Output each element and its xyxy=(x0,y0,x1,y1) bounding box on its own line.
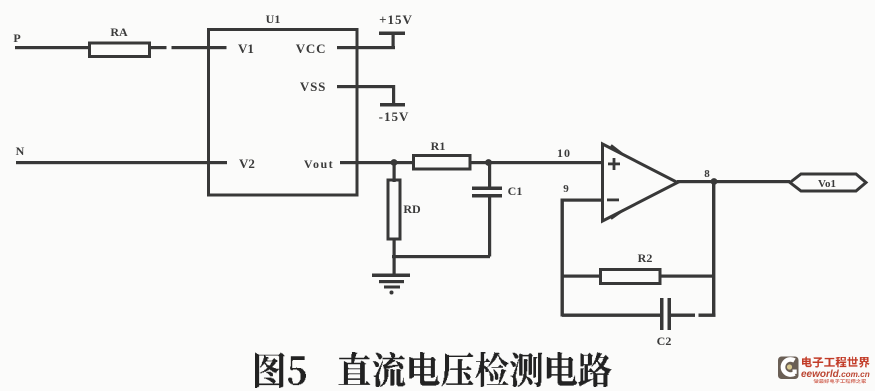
power -15V xyxy=(379,85,410,124)
svg-text:V1: V1 xyxy=(238,41,254,56)
wire R1 to op-amp xyxy=(470,161,603,164)
logo eeworld icon xyxy=(778,357,799,380)
svg-text:U1: U1 xyxy=(266,12,281,26)
svg-text:eeworld.com.cn: eeworld.com.cn xyxy=(801,369,870,380)
power +15V xyxy=(379,12,413,47)
node P xyxy=(13,31,20,45)
caption 直流电压检测电路 xyxy=(339,352,612,387)
capacitor C1 xyxy=(472,164,522,257)
svg-text:V2: V2 xyxy=(239,156,255,171)
wire RA to U1 V1 xyxy=(150,46,227,49)
label pin 10 xyxy=(557,146,571,160)
svg-text:+15V: +15V xyxy=(379,12,413,27)
svg-text:R2: R2 xyxy=(638,251,653,265)
wire R2 branch right xyxy=(660,275,715,278)
wire feedback left vertical xyxy=(561,199,564,317)
svg-text:C1: C1 xyxy=(508,184,523,198)
logo eeworld.com.cn xyxy=(801,369,870,380)
wire inverting input xyxy=(561,199,603,202)
svg-text:Vout: Vout xyxy=(304,157,334,171)
net tag Vo1 xyxy=(790,174,866,191)
resistor R2 xyxy=(601,251,661,284)
svg-text:9: 9 xyxy=(563,183,569,195)
svg-text:R1: R1 xyxy=(431,139,446,153)
svg-text:P: P xyxy=(13,31,20,45)
svg-text:VCC: VCC xyxy=(296,41,327,56)
node junction C1 top xyxy=(485,159,492,166)
logo eeworld chinese text xyxy=(802,357,870,368)
capacitor C2 xyxy=(657,298,672,348)
svg-text:RA: RA xyxy=(110,25,128,39)
node junction RD top xyxy=(391,159,398,166)
wire VSS pin xyxy=(337,85,395,88)
op-amp xyxy=(603,144,678,221)
svg-text:RD: RD xyxy=(403,202,421,216)
wire Vout to R1 xyxy=(340,161,414,164)
svg-text:VSS: VSS xyxy=(300,79,326,94)
IC U1 isolation amplifier xyxy=(209,12,358,195)
wire C2 branch right xyxy=(671,314,716,317)
resistor R1 xyxy=(414,139,471,169)
svg-text:Vo1: Vo1 xyxy=(818,178,836,190)
wire VCC pin xyxy=(337,46,395,49)
svg-text:N: N xyxy=(16,144,25,158)
resistor RA xyxy=(90,25,150,57)
svg-text:8: 8 xyxy=(704,168,710,180)
node junction output xyxy=(711,178,718,185)
svg-text:C2: C2 xyxy=(657,334,672,348)
wire N input xyxy=(16,161,227,164)
svg-text:-15V: -15V xyxy=(379,109,410,124)
label pin 9 xyxy=(563,183,569,195)
wire P input xyxy=(15,46,90,49)
wire RD bottom to C1 bottom xyxy=(392,255,490,258)
wire feedback right vertical xyxy=(712,182,715,317)
resistor RD xyxy=(388,164,421,276)
wire C2 branch left xyxy=(562,314,661,317)
wire op-amp output xyxy=(677,180,790,183)
ground xyxy=(372,274,410,295)
svg-text:10: 10 xyxy=(557,146,571,160)
logo slogan xyxy=(814,379,867,383)
label pin 8 xyxy=(704,168,710,180)
caption 图5 xyxy=(255,353,306,389)
node N xyxy=(16,144,25,158)
wire R2 branch left xyxy=(562,275,600,278)
